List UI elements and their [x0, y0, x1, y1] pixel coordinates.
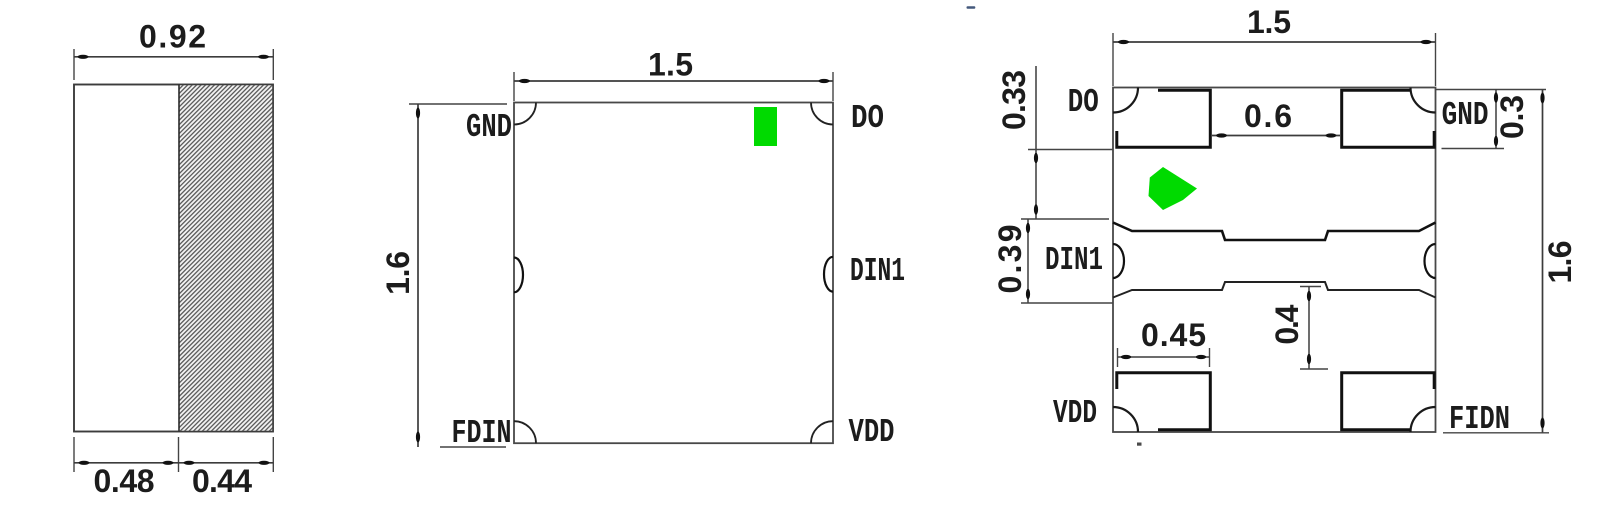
stray dot bottom [1137, 443, 1142, 446]
bottom extension line right [272, 437, 274, 472]
dimension 1.5 arrow left [519, 79, 530, 83]
svg-text:DO: DO [851, 100, 884, 137]
package outline square [514, 103, 833, 444]
DIN1 channel lower boundary [1113, 282, 1436, 298]
dimension 1.6 bottom tick [1443, 432, 1549, 434]
dimension 0.4 top tick [1300, 286, 1321, 288]
svg-text:VDD: VDD [1053, 395, 1097, 432]
dimension 0.3 bottom tick [1442, 148, 1505, 150]
dimension 0.92 line [74, 56, 273, 58]
svg-text:0.45: 0.45 [1141, 317, 1206, 353]
svg-text:GND: GND [1442, 97, 1489, 134]
dimension 0.92 extension line left [73, 49, 75, 80]
dimension 0.4 line [1308, 287, 1310, 370]
svg-text:FDIN: FDIN [452, 415, 512, 452]
stray mark top [967, 6, 976, 8]
dimension 1.6 line [417, 104, 419, 447]
green pin-1 mark pentagon [1149, 167, 1198, 210]
corner arc top-left [514, 103, 536, 125]
dimension 0.33 upper line [1035, 66, 1037, 219]
corner arc bottom-left [514, 421, 536, 443]
pad VDD (bottom-left) [1117, 373, 1211, 430]
hatched region (crystal blank) [179, 85, 272, 430]
hatch boundary line [178, 85, 180, 432]
pad DO (top-left) [1117, 90, 1211, 147]
DIN1 channel upper boundary [1113, 223, 1436, 241]
dimension 1.5 arrow left [1118, 40, 1129, 44]
right edge castellation notch [824, 257, 833, 292]
dimension 0.45 arrow right [1196, 355, 1206, 359]
svg-text:0.48: 0.48 [94, 463, 155, 499]
dimension 1.5 extension line left [513, 72, 515, 101]
dimension 1.6 line [1542, 90, 1544, 434]
svg-text:FIDN: FIDN [1449, 401, 1510, 438]
dimension 1.6 arrow top [416, 108, 420, 119]
corner arc top-right [811, 103, 833, 125]
dimension 1.5 extension line right [1435, 33, 1437, 86]
dimension 0.3 arrow top [1494, 92, 1498, 102]
svg-text:0.4: 0.4 [1269, 304, 1305, 344]
dimension 0.92 extension line right [272, 49, 274, 80]
package outline square [1113, 88, 1436, 433]
dimension 1.5 extension line left [1112, 33, 1114, 86]
svg-text:0.3: 0.3 [1494, 95, 1530, 139]
dimension 0.3 arrow bottom [1494, 136, 1498, 146]
dimension 0.45 line [1118, 356, 1210, 358]
dimension 0.92 arrow left [78, 55, 89, 59]
dimension 0.4 arrow top [1307, 291, 1311, 301]
green pin-1 mark rectangle [754, 107, 777, 146]
svg-text:0.6: 0.6 [1244, 98, 1292, 134]
corner arc bottom-right [811, 421, 833, 443]
dimension 0.33 arrow top [1034, 153, 1038, 163]
dimension 1.5 arrow right [1421, 40, 1432, 44]
corner arc bottom-right [1411, 407, 1436, 432]
svg-text:VDD: VDD [849, 414, 895, 451]
svg-text:DIN1: DIN1 [1045, 242, 1103, 279]
pad FIDN (bottom-right) [1342, 373, 1435, 430]
left edge castellation notch [1113, 244, 1124, 278]
dimension 1.5 extension line right [832, 72, 834, 101]
dimension 0.3 top tick [1436, 89, 1546, 91]
dimension 0.33 tick at pad bottom [1028, 149, 1113, 151]
svg-text:1.5: 1.5 [648, 47, 693, 83]
dimension 0.6 line [1212, 135, 1340, 137]
dimension 0.44 line [179, 462, 274, 464]
dimension 0.48 arrow left [79, 461, 90, 465]
dimension 0.33 arrow bottom [1034, 204, 1038, 214]
corner arc top-left [1113, 88, 1138, 113]
bottom extension line left [73, 437, 75, 472]
corner arc bottom-left [1113, 407, 1138, 432]
svg-text:0.33: 0.33 [996, 70, 1032, 130]
tick at DIN1 channel top [1021, 218, 1109, 220]
dimension 0.3 line [1495, 90, 1497, 149]
dimension 0.45 arrow left [1121, 355, 1131, 359]
dimension 0.4 bottom tick [1300, 368, 1328, 370]
left edge castellation notch [514, 258, 523, 293]
svg-text:1.6: 1.6 [1542, 241, 1578, 284]
svg-text:DO: DO [1068, 84, 1099, 121]
dimension 0.45 tick left [1117, 348, 1119, 367]
dimension 1.5 arrow right [819, 79, 830, 83]
dimension 0.39 arrow top [1026, 223, 1030, 233]
dimension 0.44 arrow right [259, 461, 270, 465]
svg-text:DIN1: DIN1 [850, 253, 905, 290]
dimension 1.6 arrow top [1540, 93, 1544, 104]
dimension 0.39 line [1027, 219, 1029, 303]
right edge castellation notch [1425, 244, 1436, 278]
svg-text:1.5: 1.5 [1247, 4, 1291, 40]
dimension 1.5 line [514, 80, 833, 82]
pad GND (top-right) [1342, 90, 1435, 147]
svg-text:0.92: 0.92 [139, 19, 206, 55]
svg-text:GND: GND [466, 109, 512, 146]
svg-text:1.6: 1.6 [380, 251, 416, 295]
dimension 0.39 arrow bottom [1026, 289, 1030, 299]
dimension 0.39 bottom tick [1021, 302, 1113, 304]
bottom extension line middle [178, 437, 180, 472]
dimension 0.48 arrow right [163, 461, 174, 465]
dimension 1.6 arrow bottom [1540, 418, 1544, 429]
dimension 0.44 arrow left [184, 461, 195, 465]
dimension 0.6 arrow left [1216, 133, 1227, 137]
package body outline [74, 85, 273, 432]
dimension 1.6 arrow bottom [416, 432, 420, 443]
dimension 0.6 arrow right [1326, 133, 1337, 137]
dimension 0.45 tick right [1209, 348, 1211, 367]
dimension 0.48 line [74, 462, 179, 464]
dimension 1.5 line [1113, 41, 1436, 43]
corner arc top-right [1411, 88, 1436, 113]
dimension 0.4 arrow bottom [1307, 354, 1311, 364]
dimension 0.92 arrow right [258, 55, 269, 59]
svg-text:0.44: 0.44 [192, 463, 252, 499]
svg-text:0.39: 0.39 [992, 225, 1028, 294]
dimension 1.6 top tick [409, 103, 507, 105]
dimension 1.6 bottom tick [440, 446, 506, 448]
